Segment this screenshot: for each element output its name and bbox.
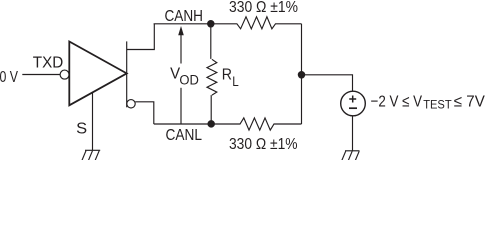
svg-text:OD: OD: [179, 72, 199, 87]
svg-text:L: L: [232, 74, 239, 89]
svg-text:TXD: TXD: [33, 54, 64, 71]
svg-text:CANH: CANH: [165, 8, 204, 25]
svg-text:330 Ω ±1%: 330 Ω ±1%: [229, 136, 298, 153]
svg-text:0 V: 0 V: [0, 69, 18, 86]
svg-text:S: S: [76, 121, 87, 138]
svg-text:330 Ω ±1%: 330 Ω ±1%: [229, 0, 298, 16]
svg-text:≤ 7V: ≤ 7V: [454, 93, 485, 110]
svg-text:−2 V ≤ V: −2 V ≤ V: [371, 93, 423, 110]
svg-text:TEST: TEST: [423, 98, 452, 112]
svg-text:R: R: [222, 67, 232, 84]
svg-text:CANL: CANL: [166, 127, 203, 144]
